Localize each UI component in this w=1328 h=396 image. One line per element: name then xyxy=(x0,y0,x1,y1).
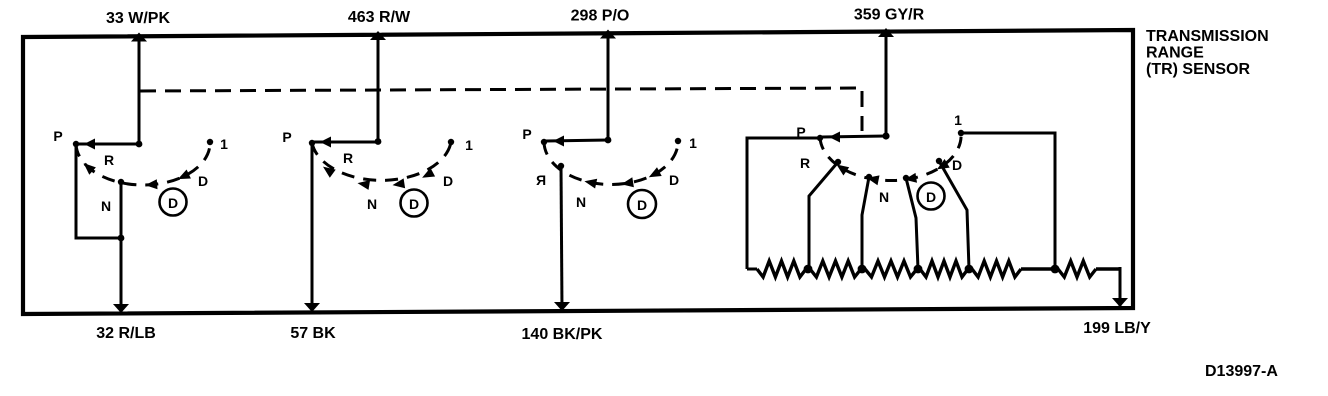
svg-text:32 R/LB: 32 R/LB xyxy=(96,325,156,342)
arc arrowheads S3 xyxy=(584,167,661,188)
svg-text:140 BK/PK: 140 BK/PK xyxy=(522,326,603,343)
svg-text:P: P xyxy=(522,126,531,142)
wire S1 P to N jumper xyxy=(76,146,121,238)
wire 359 GY/R to top connector xyxy=(878,28,894,137)
label R S3 (mirrored in scan) xyxy=(536,172,546,188)
svg-text:1: 1 xyxy=(689,135,697,151)
arc arrowheads S4 xyxy=(837,159,950,185)
rotary switch S4 wiper arrow xyxy=(822,132,886,143)
wire S4 contact 1 to ladder right end xyxy=(961,133,1055,269)
wire S4 P to ladder left end xyxy=(747,138,818,269)
resistor ladder baseline left stub xyxy=(747,268,757,271)
wire S4 D-circled contact to ladder xyxy=(906,178,918,269)
contact 1 S4 xyxy=(958,130,964,136)
svg-text:1: 1 xyxy=(954,112,962,128)
contact P S2 xyxy=(309,140,315,146)
wire 32 R/LB from contact N to bottom connector xyxy=(113,182,129,313)
label 140 BK/PK xyxy=(522,326,603,343)
junction S4 wiper feed xyxy=(882,132,889,139)
wire 463 R/W to top connector xyxy=(370,31,386,142)
rotary switch S1 wiper arrow xyxy=(78,139,139,150)
wire S4 N contact to ladder xyxy=(862,177,869,269)
junction ladder 1 tap xyxy=(1051,265,1060,274)
svg-text:N: N xyxy=(101,198,111,214)
label R S2 xyxy=(343,150,353,166)
svg-text:D: D xyxy=(198,173,208,189)
dashed rotor coupling line xyxy=(140,88,862,131)
junction S3 wiper feed xyxy=(605,137,612,144)
svg-text:P: P xyxy=(282,129,291,145)
svg-text:D13997-A: D13997-A xyxy=(1205,363,1278,380)
svg-text:D: D xyxy=(168,195,178,211)
svg-text:199 LB/Y: 199 LB/Y xyxy=(1083,320,1151,337)
junction S1 wiper feed xyxy=(136,141,143,148)
svg-text:R: R xyxy=(343,150,353,166)
contact N S1 xyxy=(118,179,124,185)
label 359 GY/R xyxy=(854,7,925,24)
contact N S4 xyxy=(866,174,872,180)
junction ladder R tap xyxy=(804,265,813,274)
junction S2 wiper feed xyxy=(375,138,382,145)
label 1 S3 xyxy=(689,135,697,151)
rotary switch S3 wiper arrow xyxy=(546,136,608,147)
svg-text:33 W/PK: 33 W/PK xyxy=(106,10,170,27)
resistor R5 (D-1) xyxy=(972,261,1055,277)
svg-text:463 R/W: 463 R/W xyxy=(348,9,411,26)
label 199 LB/Y xyxy=(1083,320,1151,337)
svg-text:D: D xyxy=(409,196,419,212)
contact 1 S1 xyxy=(207,139,213,145)
label 1 S2 xyxy=(465,137,473,153)
wire 57 BK from contact P to bottom connector xyxy=(304,144,320,312)
svg-text:D: D xyxy=(669,172,679,188)
svg-text:R: R xyxy=(536,172,546,188)
resistor R2 (R-N) xyxy=(810,261,861,277)
circled D S3 xyxy=(628,190,656,218)
svg-text:TRANSMISSION: TRANSMISSION xyxy=(1146,28,1269,45)
label 57 BK xyxy=(290,325,336,342)
circled D S4 xyxy=(918,183,945,210)
wire S4 R contact to ladder xyxy=(809,162,838,269)
junction ladder D tap xyxy=(965,265,974,274)
dashed arc S2 xyxy=(312,142,451,180)
label P S1 xyxy=(53,128,62,144)
wire S4 D contact to ladder xyxy=(939,161,969,269)
label P S2 xyxy=(282,129,291,145)
svg-text:N: N xyxy=(879,189,889,205)
resistor R6 (output) xyxy=(1055,261,1120,277)
contact R S4 xyxy=(835,159,841,165)
svg-text:1: 1 xyxy=(220,136,228,152)
circled D S2 xyxy=(401,190,428,217)
label 1 S4 xyxy=(954,112,962,128)
dashed arc S4 xyxy=(820,133,961,181)
junction ladder D-circled tap xyxy=(914,265,923,274)
svg-text:D: D xyxy=(926,189,936,205)
svg-text:R: R xyxy=(800,155,810,171)
dashed arc S1 xyxy=(76,142,210,185)
arc arrowheads S2 xyxy=(323,167,435,190)
label R S4 xyxy=(800,155,810,171)
svg-text:D: D xyxy=(443,173,453,189)
contact 1 S2 xyxy=(448,139,454,145)
svg-text:N: N xyxy=(367,196,377,212)
label N S2 xyxy=(367,196,377,212)
svg-text:P: P xyxy=(53,128,62,144)
figure number D13997-A xyxy=(1205,363,1278,380)
label 298 P/O xyxy=(571,8,630,25)
svg-text:D: D xyxy=(952,157,962,173)
label 33 W/PK xyxy=(106,10,170,27)
wire 33 W/PK to top connector xyxy=(131,33,147,146)
circled D S1 xyxy=(160,189,187,216)
resistor R1 (P-R) xyxy=(757,261,806,277)
rotary switch S2 wiper arrow xyxy=(314,137,378,148)
title TRANSMISSION RANGE (TR) SENSOR xyxy=(1146,28,1269,78)
svg-text:(TR) SENSOR: (TR) SENSOR xyxy=(1146,61,1250,78)
label N S4 xyxy=(879,189,889,205)
label N S1 xyxy=(101,198,111,214)
contact D S4 xyxy=(936,158,942,164)
contact R S3 xyxy=(558,163,564,169)
label 463 R/W xyxy=(348,9,411,26)
arc arrowheads S1 xyxy=(84,163,191,189)
resistor R4 (Dc-D) xyxy=(920,261,968,277)
contact P S3 xyxy=(541,139,547,145)
dashed arc S3 xyxy=(544,141,678,184)
label D S4 xyxy=(952,157,962,173)
svg-text:359 GY/R: 359 GY/R xyxy=(854,7,925,24)
junction S1 jumper xyxy=(118,235,125,242)
label R S1 xyxy=(104,152,114,168)
sensor body border frame xyxy=(23,30,1133,314)
svg-text:298 P/O: 298 P/O xyxy=(571,8,630,25)
label D S1 xyxy=(198,173,208,189)
junction ladder N tap xyxy=(858,265,867,274)
label N S3 xyxy=(576,194,586,210)
svg-text:N: N xyxy=(576,194,586,210)
contact 1 S3 xyxy=(675,138,681,144)
svg-text:D: D xyxy=(637,197,647,213)
resistor R3 (N-Dc) xyxy=(865,261,917,277)
label D S2 xyxy=(443,173,453,189)
label P S4 xyxy=(796,124,805,140)
contact P S1 xyxy=(73,141,79,147)
label D S3 xyxy=(669,172,679,188)
contact P S4 xyxy=(817,135,823,141)
label 32 R/LB xyxy=(96,325,156,342)
svg-text:1: 1 xyxy=(465,137,473,153)
label P S3 xyxy=(522,126,531,142)
contact D-circled S4 xyxy=(903,175,909,181)
label 1 S1 xyxy=(220,136,228,152)
wire 199 LB/Y to bottom connector xyxy=(1112,267,1128,307)
wire 298 P/O to top connector xyxy=(600,30,616,142)
svg-text:R: R xyxy=(104,152,114,168)
svg-text:57 BK: 57 BK xyxy=(290,325,336,342)
svg-text:RANGE: RANGE xyxy=(1146,45,1204,62)
wire 140 BK/PK from contact R to bottom connector xyxy=(554,166,570,311)
